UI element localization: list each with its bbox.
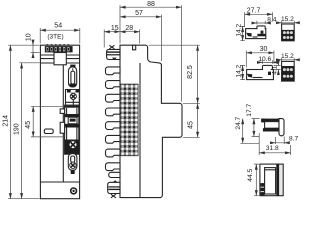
dim 15 / 28: [104, 30, 140, 48]
svg-text:14.2: 14.2: [236, 64, 243, 77]
dim 45 side: [183, 136, 200, 138]
svg-text:214: 214: [2, 115, 9, 127]
svg-text:82.5: 82.5: [187, 65, 194, 79]
svg-text:28: 28: [125, 25, 133, 32]
svg-text:8.7: 8.7: [289, 135, 298, 142]
top latch tab: [133, 45, 136, 50]
dim 24.7: [240, 142, 259, 144]
dim 82.5: [149, 45, 200, 103]
terminal screw box: [67, 90, 79, 93]
breaker body: [65, 105, 79, 154]
svg-text:30: 30: [260, 46, 268, 53]
svg-text:27.7: 27.7: [247, 8, 261, 15]
X mark above top terminal: [109, 45, 114, 49]
svg-text:45: 45: [188, 121, 195, 129]
module A side: [246, 29, 266, 39]
bottom circle: [71, 188, 77, 194]
vent grid: [120, 84, 138, 156]
svg-text:8.4: 8.4: [267, 16, 276, 23]
breaker left clip rects: [60, 109, 64, 114]
dim 4.1: [274, 65, 281, 69]
bottom terminal (side): [108, 182, 120, 193]
dim 27.7: [245, 12, 273, 26]
dim 30: [246, 51, 274, 68]
X mark below bottom terminal: [111, 194, 116, 198]
terminal row: [45, 46, 73, 52]
top terminal (side): [107, 49, 120, 59]
svg-text:44.5: 44.5: [247, 169, 254, 182]
dim 57: [160, 15, 162, 61]
svg-text:57: 57: [135, 10, 143, 17]
dim 8.7: [275, 137, 284, 145]
dim 190: [19, 62, 39, 64]
svg-text:24.7: 24.7: [235, 116, 242, 129]
dim 214: [8, 45, 40, 199]
front A: [282, 24, 295, 41]
top ledge lines: [40, 55, 79, 59]
svg-text:(3TE): (3TE): [47, 34, 63, 41]
svg-text:15: 15: [111, 25, 119, 32]
svg-text:45: 45: [25, 121, 32, 129]
dim 31.8: [259, 133, 290, 155]
fuse pill 1 top tab: [70, 65, 75, 68]
fuse pill 1: [69, 67, 77, 87]
dim 8.4: [257, 21, 265, 25]
svg-text:88: 88: [147, 1, 155, 8]
side body outline: [120, 45, 182, 197]
dim 44.5: [254, 164, 259, 196]
svg-text:15.2: 15.2: [281, 53, 294, 60]
hooks: [106, 67, 121, 178]
dim 88: [120, 5, 182, 101]
bottom ledge line: [40, 181, 79, 183]
internal vertical line: [139, 63, 141, 198]
svg-text:31.8: 31.8: [266, 145, 279, 152]
svg-text:54: 54: [54, 22, 62, 29]
ledge line under block: [40, 62, 79, 64]
protruding block: [54, 53, 66, 65]
dim 45 front: [31, 106, 63, 137]
dim 14.2 A: [240, 27, 245, 41]
breaker lower dark zone with screw: [65, 140, 79, 155]
component column divider: [62, 65, 64, 182]
dim 10.6: [263, 60, 273, 64]
dim 14.2 B: [240, 65, 245, 79]
device body: [40, 45, 79, 199]
dim 17.7: [252, 119, 260, 137]
svg-text:17.7: 17.7: [246, 104, 253, 117]
label slot: [44, 129, 53, 134]
screw tips above body edge: [47, 44, 70, 45]
dim 54: [40, 28, 80, 44]
front B: [282, 61, 295, 81]
fuse pill 2: [68, 154, 77, 171]
svg-text:10.6: 10.6: [258, 56, 271, 63]
svg-text:10: 10: [25, 33, 32, 41]
dim 15.2 B: [282, 58, 295, 61]
svg-text:15.2: 15.2: [281, 16, 294, 23]
svg-text:190: 190: [14, 123, 21, 135]
svg-text:14.2: 14.2: [236, 23, 243, 36]
dim 10: [31, 51, 40, 53]
svg-text:4.1: 4.1: [271, 65, 278, 74]
dim 15.2 A: [282, 21, 295, 24]
